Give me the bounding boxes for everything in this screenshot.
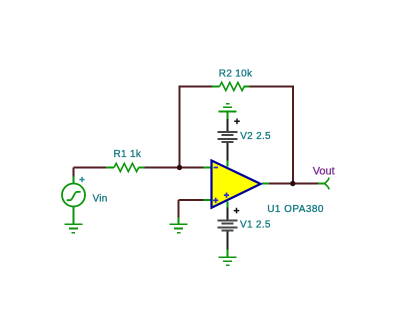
- svg-text:Vin: Vin: [93, 194, 108, 205]
- svg-text:Vout: Vout: [313, 165, 335, 177]
- svg-text:V2 2.5: V2 2.5: [240, 131, 271, 142]
- svg-text:R1 1k: R1 1k: [114, 149, 142, 160]
- svg-text:V1 2.5: V1 2.5: [240, 220, 271, 231]
- svg-text:U1 OPA380: U1 OPA380: [267, 204, 324, 215]
- svg-text:R2 10k: R2 10k: [219, 68, 253, 79]
